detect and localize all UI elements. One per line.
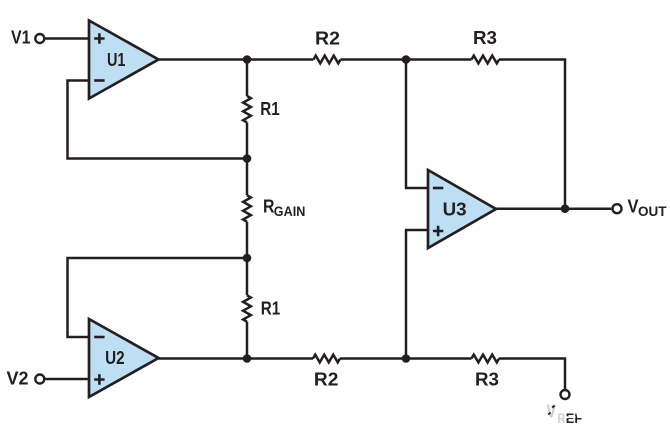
svg-text:R2: R2 <box>315 29 340 49</box>
svg-text:R: R <box>558 411 566 426</box>
svg-text:R2: R2 <box>314 370 339 390</box>
svg-text:V2: V2 <box>7 369 29 389</box>
svg-text:V: V <box>628 197 639 217</box>
svg-text:U1: U1 <box>107 50 126 70</box>
svg-text:V: V <box>547 402 557 422</box>
svg-text:R1: R1 <box>260 99 280 119</box>
svg-text:R1: R1 <box>261 299 281 319</box>
svg-text:R3: R3 <box>475 370 499 390</box>
svg-text:U3: U3 <box>443 200 467 220</box>
svg-text:V1: V1 <box>11 28 31 48</box>
svg-text:U2: U2 <box>105 348 125 368</box>
svg-text:EF: EF <box>566 411 582 426</box>
svg-text:GAIN: GAIN <box>274 204 306 219</box>
svg-text:R: R <box>263 197 275 217</box>
svg-text:OUT: OUT <box>638 204 667 219</box>
svg-text:R3: R3 <box>473 28 497 48</box>
